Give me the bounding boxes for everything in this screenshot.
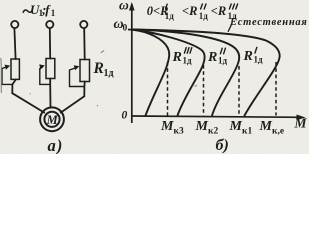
curve R1d-1prime [132, 30, 239, 116]
terminal T1 [11, 21, 18, 28]
wire R2 bottom [49, 79, 51, 108]
curve label R1d-1prime [243, 49, 264, 65]
omega axis arrowhead [129, 2, 135, 11]
arrowhead of R3 hook [74, 65, 80, 70]
axis label Mk,e [259, 119, 285, 137]
faint speck in chart [195, 85, 198, 88]
arrowhead of R1 hook [5, 65, 11, 70]
prime marks of curve labels [184, 47, 256, 53]
omega axis (vertical) [131, 4, 133, 123]
omega0 tick [128, 29, 135, 31]
resistor R1 body [11, 59, 19, 79]
axis label Mk2 [195, 119, 219, 137]
dashed line Mk1 [238, 66, 240, 116]
tick from label Estestvennaya to natural curve [228, 25, 232, 32]
curve R1d-3prime (leftmost) [132, 30, 169, 116]
resistor R2 body [46, 59, 55, 79]
curve label R1d-3prime [172, 50, 193, 66]
wire T2 to R2 [49, 28, 51, 58]
curve label R1d-2prime [207, 50, 228, 66]
faint speck below motor area [97, 105, 99, 107]
dashed line Mk,e [275, 62, 277, 116]
wire T3 to R3 [83, 28, 86, 59]
resistor R3 body [80, 60, 90, 82]
arrowhead of R2 hook [39, 64, 45, 69]
hook arrow of R3 [70, 68, 85, 87]
M axis arrowhead [297, 115, 306, 121]
wire R3 bottom [83, 82, 85, 97]
curve R1d-2prime [132, 30, 205, 116]
terminal T2 [46, 21, 53, 28]
inequality 0 lt R1d-1 lt R1d-2 lt R1d-3 [147, 4, 237, 21]
wire R1 diagonal to motor [12, 93, 44, 112]
hook arrow of R1 [2, 67, 13, 85]
dashed line Mk2 [203, 65, 205, 116]
wire R3 diagonal to motor [61, 96, 85, 112]
motor M inner circle [44, 112, 59, 127]
wire R1 bottom [12, 80, 16, 94]
prime marks of inequality [165, 4, 237, 9]
speck near R1d label [101, 50, 104, 52]
scan smudge left edge [0, 58, 2, 93]
label R1d of resistor R3 [93, 60, 114, 79]
label omega0 [114, 17, 128, 34]
axis label Mk3 [160, 119, 184, 137]
tilde of ~U1 [23, 10, 32, 12]
wire T1 to R1 [14, 28, 15, 59]
terminal T3 [80, 21, 87, 28]
hook arrow of R2 [40, 67, 50, 84]
motor M outer circle [40, 107, 64, 131]
M axis (horizontal) [132, 116, 303, 117]
curve natural (estestvennaya) [132, 30, 280, 116]
axis label Mk1 [229, 119, 253, 137]
chart axes [128, 4, 303, 123]
dashed line Mk3 [167, 62, 169, 116]
